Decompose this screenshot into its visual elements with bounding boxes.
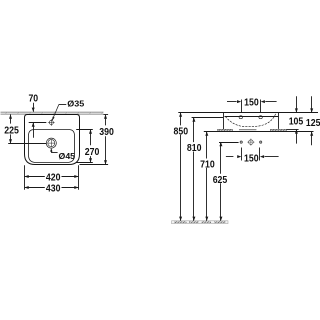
svg-text:125: 125 bbox=[306, 118, 320, 129]
svg-text:225: 225 bbox=[4, 125, 19, 136]
svg-text:150: 150 bbox=[244, 97, 259, 108]
svg-text:390: 390 bbox=[99, 127, 114, 138]
svg-text:430: 430 bbox=[46, 184, 61, 195]
svg-text:850: 850 bbox=[174, 126, 189, 137]
svg-text:420: 420 bbox=[46, 172, 61, 183]
svg-text:105: 105 bbox=[289, 116, 304, 127]
svg-text:Ø45: Ø45 bbox=[59, 151, 76, 161]
svg-text:270: 270 bbox=[85, 147, 100, 158]
svg-text:150: 150 bbox=[244, 153, 259, 164]
svg-text:Ø35: Ø35 bbox=[67, 99, 84, 109]
svg-text:810: 810 bbox=[187, 143, 202, 154]
svg-text:710: 710 bbox=[200, 159, 215, 170]
svg-text:625: 625 bbox=[213, 175, 228, 186]
svg-text:70: 70 bbox=[28, 94, 38, 105]
